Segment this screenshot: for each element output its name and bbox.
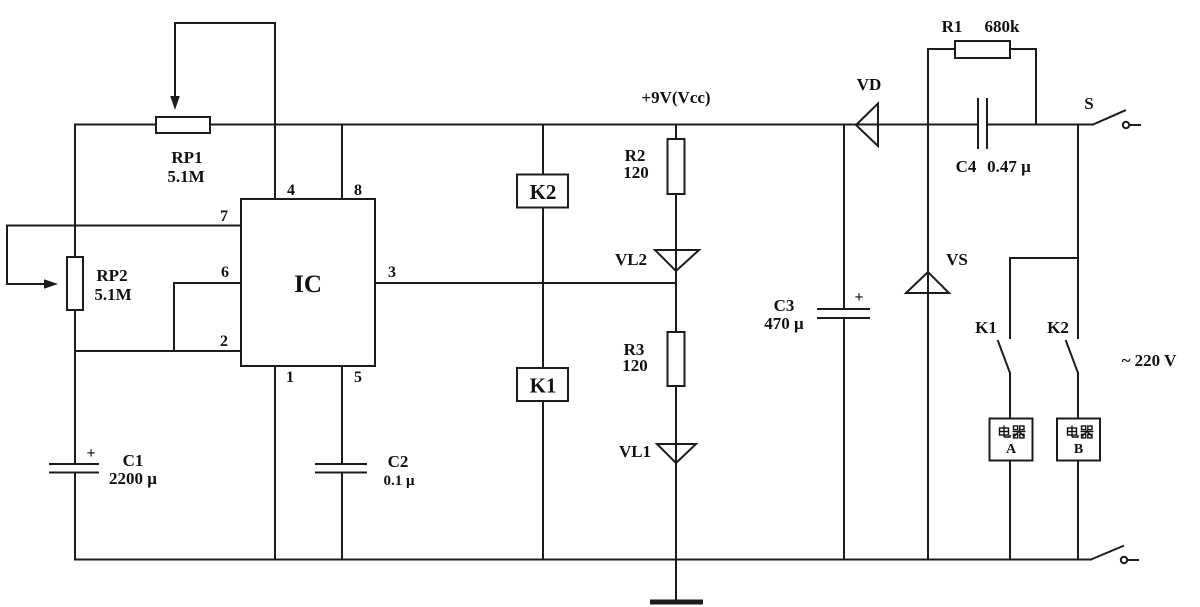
svg-text:120: 120 — [622, 356, 648, 375]
wire pin 8 — [341, 125, 343, 200]
relay coil K1 box — [517, 368, 568, 401]
resistor R3 — [668, 332, 685, 386]
wire ground lead — [675, 560, 677, 601]
wire C3 branch — [843, 125, 845, 310]
bottom switch contact circle — [1121, 557, 1127, 563]
wire pin 2 — [75, 350, 241, 352]
wire top rail middle segment — [210, 124, 978, 126]
appliance A box — [990, 419, 1033, 461]
RP1 wiper arrowhead — [170, 96, 180, 110]
svg-text:8: 8 — [354, 182, 362, 199]
wire box B to bottom rail — [1077, 461, 1079, 560]
bottom switch blade — [1091, 546, 1123, 560]
wire K2 to box B — [1077, 373, 1079, 419]
svg-text:+: + — [854, 289, 863, 306]
relay contact K2 blade — [1066, 341, 1078, 373]
switch S blade — [1093, 111, 1125, 125]
capacitor C1 plates — [50, 463, 98, 465]
wire R2/VL branch — [675, 125, 677, 140]
wire pin 4 — [274, 125, 276, 200]
svg-text:VL2: VL2 — [615, 250, 647, 269]
svg-text:5.1M: 5.1M — [167, 167, 204, 186]
appliance B chinese glyphs — [1068, 426, 1094, 438]
ground — [650, 600, 703, 605]
resistor R1 — [955, 41, 1010, 58]
wire top rail left segment — [75, 124, 156, 126]
wire pin 1 — [274, 366, 276, 560]
resistor R2 — [668, 139, 685, 194]
svg-text:120: 120 — [623, 163, 649, 182]
wire K2/K1 branch — [542, 125, 544, 175]
svg-text:VD: VD — [857, 75, 882, 94]
svg-text:2200 μ: 2200 μ — [109, 469, 157, 488]
switch S contact circle — [1123, 122, 1129, 128]
svg-text:RP1: RP1 — [171, 148, 202, 167]
wire box A to bottom rail — [1009, 461, 1011, 560]
svg-text:C2: C2 — [388, 452, 409, 471]
svg-text:C3: C3 — [774, 296, 795, 315]
capacitor C2 plates — [316, 463, 366, 465]
svg-text:6: 6 — [221, 264, 229, 281]
svg-text:R1: R1 — [942, 17, 963, 36]
svg-text:K1: K1 — [530, 374, 557, 398]
wire K1 to box A — [1009, 373, 1011, 419]
diode VL2 — [655, 250, 699, 271]
svg-text:RP2: RP2 — [96, 266, 127, 285]
wire pin 7 loop / RP2 wiper — [7, 226, 241, 285]
relay contact K1 blade — [998, 341, 1010, 373]
svg-text:4: 4 — [287, 182, 295, 199]
RP2 wiper arrowhead — [44, 279, 58, 289]
wire pin 5 upper — [341, 366, 343, 464]
potentiometer RP2 — [67, 257, 83, 310]
wire pin 5 lower — [341, 473, 343, 560]
diode VD — [856, 104, 878, 147]
svg-text:7: 7 — [220, 208, 228, 225]
capacitor C3 plates — [818, 308, 869, 310]
switch S stub — [1130, 124, 1140, 126]
svg-text:680k: 680k — [985, 17, 1021, 36]
wire left vertical lower — [74, 473, 76, 560]
resistor RP1 — [156, 117, 210, 133]
wire RP1 wiper loop — [175, 23, 275, 125]
svg-text:~ 220 V: ~ 220 V — [1122, 351, 1178, 370]
svg-text:IC: IC — [294, 271, 322, 298]
svg-text:1: 1 — [286, 369, 294, 386]
svg-text:+9V(Vcc): +9V(Vcc) — [641, 88, 710, 107]
svg-text:5: 5 — [354, 369, 362, 386]
appliance A chinese glyphs — [1000, 426, 1094, 438]
svg-text:K2: K2 — [530, 180, 557, 204]
svg-text:0.47 μ: 0.47 μ — [987, 157, 1031, 176]
wire left vertical upper — [74, 125, 76, 258]
wire appliance branch feed — [1010, 125, 1078, 259]
wire pin 3 — [375, 282, 676, 284]
svg-text:2: 2 — [220, 333, 228, 350]
wire K1 contact branch upper — [1009, 258, 1011, 338]
svg-text:S: S — [1084, 94, 1093, 113]
svg-text:C1: C1 — [123, 451, 144, 470]
wire top rail right segment — [987, 124, 1093, 126]
svg-text:A: A — [1006, 442, 1017, 457]
appliance B box — [1057, 419, 1100, 461]
svg-text:5.1M: 5.1M — [94, 285, 131, 304]
svg-text:K1: K1 — [975, 318, 997, 337]
diode VL1 — [657, 444, 696, 463]
svg-text:470 μ: 470 μ — [764, 314, 804, 333]
wire VS branch — [927, 49, 929, 560]
svg-text:0.1 μ: 0.1 μ — [383, 473, 415, 489]
op-amp IC U1 box — [241, 199, 375, 366]
svg-text:B: B — [1074, 442, 1083, 457]
wire R1 loop right — [1010, 49, 1036, 125]
svg-text:VS: VS — [946, 250, 968, 269]
wire left vertical middle — [74, 310, 76, 464]
wire pin 6 — [174, 283, 241, 351]
wire R1 loop left stub — [928, 48, 955, 50]
svg-text:3: 3 — [388, 264, 396, 281]
svg-text:C4: C4 — [956, 157, 977, 176]
relay coil K2 box — [517, 175, 568, 208]
svg-text:VL1: VL1 — [619, 442, 651, 461]
thyristor VS — [906, 272, 949, 293]
svg-text:K2: K2 — [1047, 318, 1069, 337]
bottom switch stub — [1128, 559, 1138, 561]
wire bottom rail — [75, 559, 1091, 561]
wire K2 contact branch upper — [1077, 258, 1079, 338]
capacitor C4 plates — [977, 99, 979, 148]
svg-text:+: + — [86, 445, 95, 462]
